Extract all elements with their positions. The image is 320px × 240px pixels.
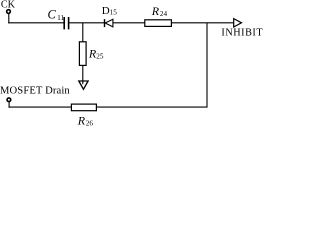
capacitor C11	[63, 17, 65, 29]
wire bottom rail right	[96, 106, 207, 108]
wire top rail left	[8, 22, 63, 24]
arrow down to MOSFET drain	[79, 81, 88, 89]
junction node to right branch	[206, 23, 208, 107]
wire bottom rail left	[9, 106, 72, 108]
svg-text:D: D	[102, 5, 110, 17]
wire cap to diode	[69, 22, 104, 24]
svg-text:24: 24	[160, 10, 168, 18]
resistor R25	[79, 42, 86, 66]
terminal CK	[7, 10, 11, 14]
diode D15	[104, 19, 106, 27]
junction node to R25	[82, 23, 84, 42]
resistor R26	[71, 104, 96, 111]
arrow INHIBIT	[234, 19, 242, 27]
svg-text:R: R	[151, 4, 160, 18]
svg-text:15: 15	[110, 9, 118, 17]
svg-text:C: C	[48, 8, 57, 22]
resistor R24	[145, 20, 172, 27]
wire drain stub	[8, 102, 10, 108]
wire CK stub	[8, 13, 10, 23]
svg-text:25: 25	[96, 52, 104, 60]
svg-text:INHIBIT: INHIBIT	[221, 28, 263, 39]
wire R24 to arrow	[171, 22, 233, 24]
wire R25 bottom stub	[82, 65, 84, 84]
svg-text:R: R	[77, 113, 86, 126]
svg-text:26: 26	[86, 119, 94, 126]
svg-text:MOSFET Drain: MOSFET Drain	[0, 85, 70, 96]
wire diode to R24	[113, 22, 145, 24]
terminal MOSFET Drain	[7, 98, 11, 102]
